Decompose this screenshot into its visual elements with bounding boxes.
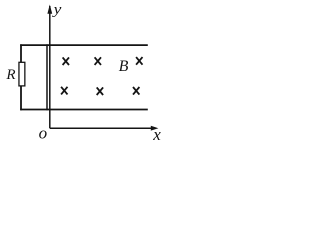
field cross B2 xyxy=(95,57,101,65)
svg-text:y: y xyxy=(51,1,62,18)
y-axis arrowhead xyxy=(47,5,52,14)
field cross B3 xyxy=(136,57,142,65)
svg-text:x: x xyxy=(152,125,161,144)
field cross B1 xyxy=(63,57,69,65)
x-axis xyxy=(50,127,153,129)
wire: top rail xyxy=(20,44,148,46)
field cross B6 xyxy=(133,87,139,95)
svg-text:R: R xyxy=(5,67,15,83)
wire: left branch xyxy=(20,44,22,110)
resistor R xyxy=(19,62,25,86)
field cross B5 xyxy=(97,87,103,95)
wire: bottom rail xyxy=(20,109,148,111)
conducting rod xyxy=(46,44,48,110)
x-axis arrowhead xyxy=(151,126,159,131)
svg-text:B: B xyxy=(119,58,129,75)
svg-text:o: o xyxy=(39,124,48,143)
field cross B4 xyxy=(61,87,67,95)
y-axis xyxy=(49,6,51,128)
